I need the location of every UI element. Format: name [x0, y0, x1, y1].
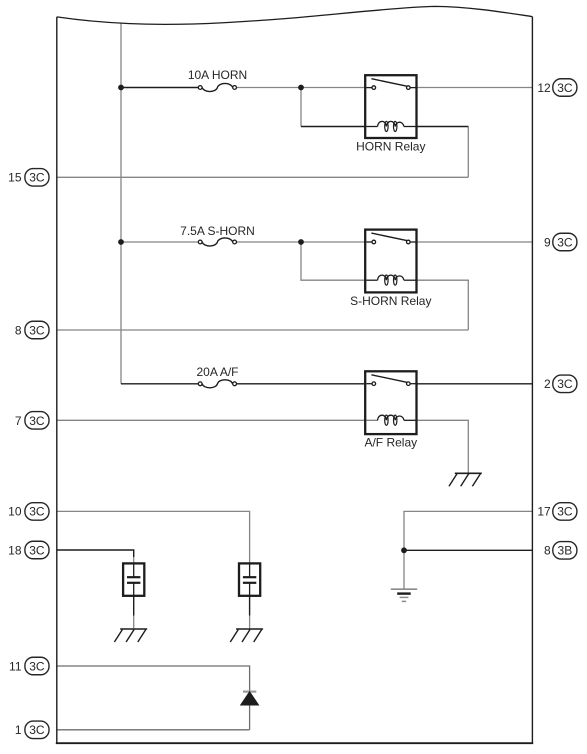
svg-text:2: 2: [544, 377, 551, 391]
svg-text:18: 18: [8, 543, 22, 557]
svg-text:3C: 3C: [29, 171, 45, 185]
svg-text:10A HORN: 10A HORN: [188, 68, 247, 82]
svg-text:11: 11: [9, 659, 22, 673]
svg-text:3C: 3C: [29, 505, 45, 519]
svg-text:HORN Relay: HORN Relay: [356, 139, 425, 153]
svg-text:20A A/F: 20A A/F: [196, 365, 238, 379]
svg-text:7.5A S-HORN: 7.5A S-HORN: [180, 224, 255, 238]
svg-text:10: 10: [8, 505, 22, 519]
svg-text:1: 1: [15, 723, 22, 737]
svg-text:12: 12: [537, 81, 551, 95]
svg-text:3C: 3C: [29, 659, 45, 673]
svg-text:9: 9: [544, 235, 551, 249]
svg-text:3B: 3B: [558, 544, 573, 558]
svg-text:8: 8: [15, 323, 22, 337]
svg-text:3C: 3C: [29, 543, 45, 557]
svg-text:3C: 3C: [557, 235, 573, 249]
svg-text:15: 15: [8, 171, 22, 185]
svg-text:3C: 3C: [557, 505, 573, 519]
svg-text:7: 7: [15, 414, 22, 428]
svg-text:3C: 3C: [557, 81, 573, 95]
svg-text:S-HORN Relay: S-HORN Relay: [350, 294, 431, 308]
svg-text:8: 8: [544, 544, 551, 558]
svg-text:3C: 3C: [557, 377, 573, 391]
svg-text:3C: 3C: [29, 723, 45, 737]
svg-text:17: 17: [537, 505, 551, 519]
svg-text:3C: 3C: [29, 323, 45, 337]
svg-text:3C: 3C: [29, 414, 45, 428]
svg-text:A/F Relay: A/F Relay: [364, 435, 417, 449]
